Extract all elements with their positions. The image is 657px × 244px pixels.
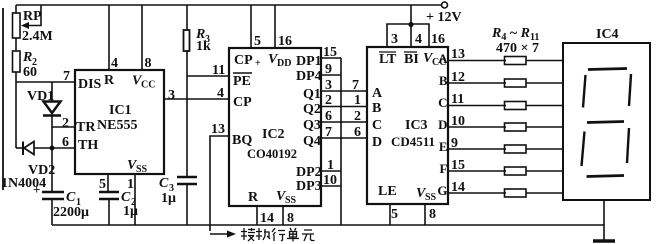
svg-text:F: F [440, 161, 448, 176]
resistor R7 [505, 123, 527, 131]
pin 4 IC3 [415, 32, 422, 47]
svg-text:VD1: VD1 [27, 89, 54, 104]
svg-text:+: + [33, 182, 40, 197]
wire segment f pin15 [448, 170, 506, 172]
resistor R2 [13, 51, 21, 72]
label 60 [23, 65, 37, 80]
wire segment e pin9 [448, 148, 506, 150]
svg-text:Q3: Q3 [303, 118, 321, 133]
label C3 [159, 176, 174, 194]
wire R9 to IC4 [526, 170, 563, 172]
svg-text:5: 5 [391, 207, 398, 222]
svg-text:470 × 7: 470 × 7 [496, 41, 539, 56]
svg-text:7: 7 [325, 125, 332, 140]
wire RP to R2 [15, 38, 17, 51]
pin 16 IC2 top [278, 34, 292, 49]
svg-text:NE555: NE555 [97, 118, 137, 133]
node rail junction [408, 22, 413, 27]
svg-text:13: 13 [451, 47, 465, 62]
svg-text:10: 10 [451, 114, 465, 129]
pin 4 IC2 [217, 86, 224, 101]
label VD1 [27, 89, 54, 104]
label DP3 [296, 179, 322, 194]
svg-text:R: R [104, 73, 115, 88]
wire IC4 to ground [603, 200, 605, 241]
label DP4 [296, 69, 322, 84]
svg-text:BQ: BQ [232, 133, 252, 148]
pin 15 [323, 45, 337, 60]
wire segment g pin14 [448, 192, 506, 194]
svg-text:14: 14 [260, 211, 274, 226]
svg-text:8: 8 [429, 207, 436, 222]
svg-text:DIS: DIS [78, 77, 102, 92]
pin 10 DP3 [323, 173, 337, 188]
pin 8 IC3 [429, 207, 436, 222]
svg-text:4: 4 [111, 56, 118, 71]
ground [593, 239, 615, 243]
wire top +12V rail [16, 4, 442, 6]
svg-text:60: 60 [23, 65, 37, 80]
label RP [23, 9, 42, 24]
svg-text:D: D [372, 135, 382, 150]
svg-text:2.4M: 2.4M [22, 29, 53, 44]
label IC1 [109, 103, 132, 118]
pin 1 IC1 [127, 177, 134, 192]
svg-text:G: G [437, 183, 447, 198]
svg-text:1: 1 [354, 93, 361, 108]
svg-text:Q2: Q2 [303, 102, 321, 117]
wire IC1 pin8 to rail [141, 5, 143, 70]
resistor R6 [505, 102, 527, 110]
label Vdd [268, 52, 291, 69]
wire R4 to IC4 [526, 60, 563, 62]
label Vss IC1 [127, 158, 148, 175]
label 470x7 [496, 41, 539, 56]
pin 3 IC3 [391, 32, 398, 47]
wire IC1 pin1 Vss to ground [134, 174, 136, 225]
segment bottom-left [582, 132, 585, 167]
pin 14 seg [451, 180, 465, 195]
svg-text:DP1: DP1 [296, 54, 322, 69]
svg-text:12: 12 [451, 70, 465, 85]
wire IC1 pin4 to rail [108, 5, 110, 70]
svg-text:7: 7 [63, 69, 70, 84]
svg-text:13: 13 [211, 122, 225, 137]
pin 11 seg [451, 92, 464, 107]
svg-text:CP: CP [234, 53, 253, 68]
label C1 [66, 190, 81, 208]
svg-text:2: 2 [62, 116, 69, 131]
label CP+ [234, 53, 261, 69]
label 2.4M [22, 29, 53, 44]
label Vss IC3 [416, 186, 437, 203]
label IC2 [262, 127, 285, 142]
pin 9 [325, 62, 332, 77]
pin 1 DP2 [327, 158, 334, 173]
pin 2 IC1 [62, 116, 69, 131]
wire Q2 to B [321, 106, 367, 108]
svg-text:1μ: 1μ [161, 191, 176, 206]
svg-text:IC3: IC3 [405, 118, 428, 133]
label 2200u [53, 205, 89, 220]
svg-text:C: C [438, 95, 447, 110]
svg-text:B: B [439, 73, 448, 88]
svg-text:IC4: IC4 [596, 27, 619, 42]
svg-text:BI: BI [404, 52, 419, 67]
label E right [439, 139, 448, 154]
label R2 [22, 50, 37, 68]
capacitor C2 [99, 192, 119, 225]
pin 5 IC1 [99, 177, 106, 192]
svg-text:4: 4 [415, 32, 422, 47]
svg-text:TR: TR [76, 120, 96, 135]
pin 7 A [352, 78, 359, 93]
label LT [379, 52, 397, 67]
svg-text:+: + [255, 58, 261, 69]
svg-text:IC1: IC1 [109, 103, 132, 118]
label BQ [232, 133, 252, 148]
wire left column R2 bottom down to VD2 [15, 72, 17, 148]
svg-text:9: 9 [325, 62, 332, 77]
wire IC1 pin3 out to IC2 pin4 [164, 98, 229, 100]
svg-text:SS: SS [425, 192, 437, 203]
label A right [438, 51, 448, 66]
wire R8 to IC4 [526, 148, 563, 150]
label Q2 [303, 102, 321, 117]
label Q3 [303, 118, 321, 133]
wire R5 to IC4 [526, 82, 563, 84]
resistor R10 R11 [505, 189, 527, 197]
glyph jie [241, 228, 255, 241]
svg-text:11: 11 [451, 92, 464, 107]
capacitor C3 [177, 177, 197, 225]
pin 14 IC2 [260, 211, 274, 226]
label CP [233, 95, 252, 110]
svg-text:11: 11 [212, 63, 225, 78]
svg-text:DP4: DP4 [296, 69, 322, 84]
glyph dan [287, 228, 299, 242]
pin 3 IC1 [168, 88, 175, 103]
label Q4 [303, 134, 321, 149]
svg-text:15: 15 [451, 158, 465, 173]
wire R6 to IC4 [526, 105, 563, 107]
svg-text:9: 9 [451, 136, 458, 151]
pin 6 IC1 [62, 135, 69, 150]
+12V terminal [442, 2, 448, 8]
svg-text:10: 10 [323, 173, 337, 188]
resistor R3 [184, 5, 190, 51]
svg-text:CO40192: CO40192 [247, 147, 297, 161]
glyph yuan [302, 230, 315, 241]
label B left [372, 101, 381, 116]
svg-text:8: 8 [287, 211, 294, 226]
display IC4 box [563, 43, 650, 200]
wire segment b pin12 [448, 82, 506, 84]
svg-text:A: A [372, 86, 383, 101]
svg-text:A: A [438, 51, 448, 66]
pin 13 seg [451, 47, 465, 62]
wire DP2 pin1 [321, 170, 341, 172]
wire Q3 to C [321, 121, 367, 123]
label TH [78, 138, 98, 153]
label C right [438, 95, 447, 110]
resistor R9 [505, 167, 527, 175]
ground rail bottom [52, 224, 604, 226]
wire R11 to IC4 [526, 192, 563, 194]
label Vss IC2 [276, 189, 297, 206]
pin 8 IC1 [145, 56, 152, 71]
svg-text:CD4511: CD4511 [391, 134, 435, 149]
label CO40192 [247, 147, 297, 161]
segment middle [587, 122, 624, 123]
label IC3 [405, 118, 428, 133]
label CD4511 [391, 134, 435, 149]
pin 2 Q2 [325, 93, 332, 108]
wire IC3 pin5 LE stub [389, 204, 391, 225]
svg-text:D: D [438, 117, 447, 132]
label DP1 [296, 54, 322, 69]
diode VD2 [16, 142, 75, 156]
label NE555 [97, 118, 137, 133]
svg-text:6: 6 [62, 135, 69, 150]
pin 2 C [354, 109, 361, 124]
label R4~R11 [491, 26, 539, 43]
svg-text:15: 15 [323, 45, 337, 60]
wire IC3 power connector [387, 24, 429, 47]
svg-text:16: 16 [431, 32, 445, 47]
label Q1 [303, 87, 321, 102]
svg-text:C: C [121, 190, 131, 205]
label LE [378, 184, 397, 199]
svg-text:Q4: Q4 [303, 134, 321, 149]
label C1 plus [33, 182, 40, 197]
svg-text:3: 3 [325, 78, 332, 93]
pin 7 Q4 [325, 125, 332, 140]
resistor R4 [505, 57, 527, 65]
pin 3 Q1 [325, 78, 332, 93]
pin 11 IC2 [212, 63, 225, 78]
text connect-to-execution-unit (drawn glyphs) [241, 228, 315, 242]
svg-text:CP: CP [233, 95, 252, 110]
segment top-right [629, 74, 631, 106]
svg-text:2: 2 [325, 93, 332, 108]
wire arrow to execution unit [210, 231, 236, 238]
wire segment c pin11 [448, 105, 506, 107]
pin 6 Q3 [325, 109, 332, 124]
svg-text:B: B [372, 101, 381, 116]
label TR [76, 120, 96, 135]
wire R7 to IC4 [526, 126, 563, 128]
label C3 1u [161, 191, 176, 206]
label 1k [196, 39, 211, 54]
resistor R8 [505, 145, 527, 153]
svg-text:TH: TH [78, 138, 98, 153]
op IC1 NE555 box [75, 70, 164, 174]
wire IC2 pin16 to rail [274, 5, 276, 48]
label C left [372, 118, 382, 133]
wire IC3 pin8 Vss stub [424, 204, 426, 225]
wire Q4 to D [321, 137, 367, 139]
wire DIS pin7 [16, 81, 75, 83]
label R IC2 [248, 190, 259, 205]
wire IC3 pin4 stub to rail [410, 5, 412, 47]
svg-text:14: 14 [451, 180, 465, 195]
svg-text:R: R [22, 50, 32, 65]
svg-text:3: 3 [391, 32, 398, 47]
label DIS [78, 77, 102, 92]
pin 9 seg [451, 136, 458, 151]
label Vcc IC3 [423, 51, 446, 68]
pin 12 seg [451, 70, 465, 85]
wire Q1 to A [321, 90, 367, 92]
label C2 [121, 190, 136, 208]
svg-text:LT: LT [379, 52, 397, 67]
svg-text:8: 8 [145, 56, 152, 71]
segment top-left [583, 75, 586, 108]
segment bottom-right [627, 128, 629, 163]
label DP2 [296, 165, 322, 180]
pin 13 IC2 [211, 122, 225, 137]
svg-text:1k: 1k [196, 39, 211, 54]
svg-text:2200μ: 2200μ [53, 205, 89, 220]
label C2 1u [123, 204, 138, 219]
pin 16 IC3 [431, 32, 445, 47]
svg-text:E: E [439, 139, 448, 154]
svg-text:16: 16 [278, 34, 292, 49]
wire IC2 pin5 to rail [250, 5, 252, 48]
op IC2 CO40192 box [229, 48, 321, 206]
svg-text:6: 6 [354, 125, 361, 140]
wire TR pin2 [52, 126, 75, 128]
svg-text:IC2: IC2 [262, 127, 285, 142]
segment top [588, 69, 627, 70]
label D left [372, 135, 382, 150]
svg-text:1: 1 [127, 177, 134, 192]
diode VD1 [43, 82, 61, 148]
label PE [233, 73, 252, 89]
capacitor C1 [42, 192, 64, 225]
wire IC2 pin14 R stub [256, 206, 258, 225]
wire segment a pin13 [448, 60, 506, 62]
pin 8 IC2 [287, 211, 294, 226]
svg-text:Q1: Q1 [303, 87, 321, 102]
pin 5 IC2 top [254, 34, 261, 49]
svg-text:5: 5 [99, 177, 106, 192]
wire BQ pin13 out to arrow [210, 136, 229, 231]
pin 10 seg [451, 114, 465, 129]
pin 4 IC1 [111, 56, 118, 71]
label G right [437, 183, 447, 198]
svg-text:SS: SS [285, 195, 297, 206]
wire DP bus down to ground [340, 58, 342, 225]
wire PE pin11 [187, 75, 229, 77]
wire DP1 pin15 [321, 57, 341, 59]
wire RP top to rail [15, 5, 17, 13]
wire DP4 pin9 [321, 74, 341, 76]
svg-text:6: 6 [325, 109, 332, 124]
label +12V [426, 10, 462, 25]
pin 15 seg [451, 158, 465, 173]
svg-text:LE: LE [378, 184, 397, 199]
svg-text:DD: DD [277, 58, 291, 69]
label VD2 [28, 163, 55, 178]
label R reset [104, 73, 115, 88]
svg-text:DP2: DP2 [296, 165, 322, 180]
wire TH junction down to C1 [51, 148, 53, 192]
wire IC1 pin5 to C2 [107, 174, 109, 192]
glyph xing [272, 228, 285, 241]
label IC4 [596, 27, 619, 42]
pin 7 IC1 [63, 69, 70, 84]
svg-text:CC: CC [141, 80, 155, 91]
glyph zhi [256, 228, 270, 240]
pin 1 B [354, 93, 361, 108]
label B right [439, 73, 448, 88]
label 1N4004 [1, 176, 46, 191]
label R3 [195, 27, 210, 45]
wire DP3 pin10 [321, 185, 341, 187]
label D right [438, 117, 447, 132]
svg-text:C: C [159, 176, 169, 191]
label Vcc IC1 [132, 74, 155, 91]
svg-text:PE: PE [233, 74, 251, 89]
potentiometer RP [13, 5, 42, 38]
op IC3 CD4511 box [367, 47, 448, 204]
svg-text:DP3: DP3 [296, 179, 322, 194]
svg-text:RP: RP [23, 9, 42, 24]
segment bottom [587, 176, 625, 177]
svg-text:5: 5 [254, 34, 261, 49]
svg-text:C: C [372, 118, 382, 133]
svg-text:SS: SS [136, 164, 148, 175]
svg-text:+ 12V: + 12V [426, 10, 462, 25]
svg-text:2: 2 [354, 109, 361, 124]
wire segment d pin10 [448, 126, 506, 128]
resistor R5 [505, 79, 527, 87]
label BI [404, 52, 419, 67]
pin 6 D [354, 125, 361, 140]
svg-text:R: R [248, 190, 259, 205]
svg-text:C: C [66, 190, 76, 205]
label F right [440, 161, 448, 176]
node TH junction [50, 146, 55, 151]
svg-text:3: 3 [168, 88, 175, 103]
pin 5 IC3 [391, 207, 398, 222]
label A left [372, 86, 383, 101]
figure border left edge [2, 8, 4, 190]
svg-text:1μ: 1μ [123, 204, 138, 219]
wire IC2 pin8 Vss stub [282, 206, 284, 225]
svg-text:7: 7 [352, 78, 359, 93]
wire R3 bottom to C3 [186, 51, 188, 177]
svg-text:4: 4 [217, 86, 224, 101]
svg-text:1: 1 [327, 158, 334, 173]
